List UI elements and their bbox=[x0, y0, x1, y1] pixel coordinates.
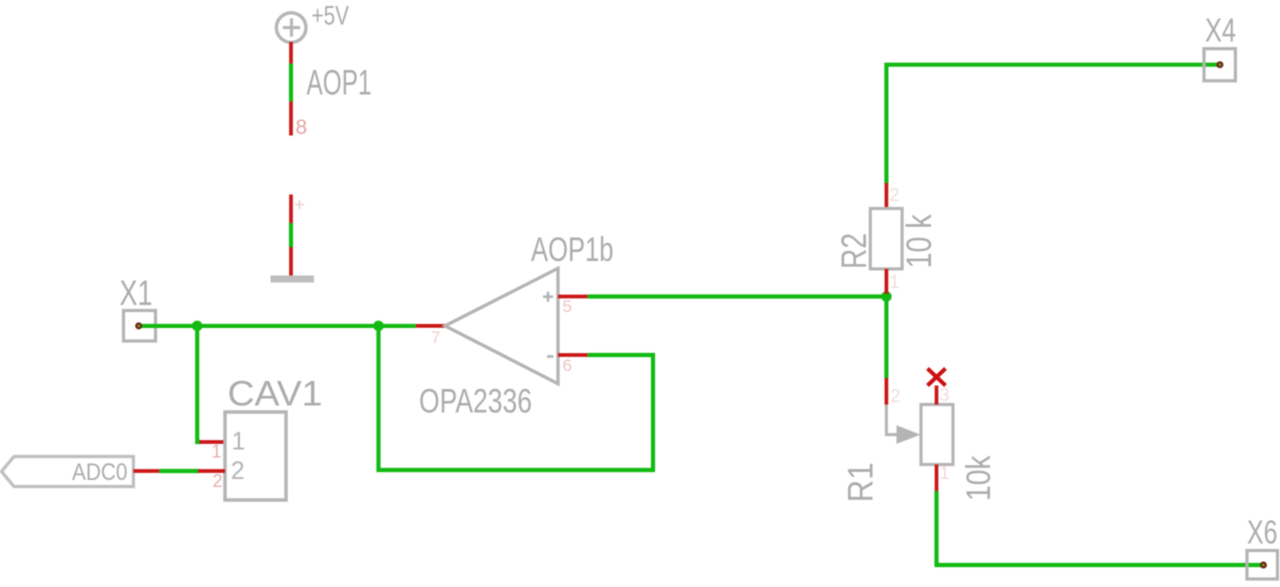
junction B bbox=[373, 321, 384, 332]
svg-text:7: 7 bbox=[431, 328, 440, 347]
wire op-amp + input net bbox=[588, 294, 887, 298]
svg-text:3: 3 bbox=[940, 385, 950, 405]
wire junction to CAV1 pin 1 bbox=[197, 326, 201, 442]
op-amp AOP1b body bbox=[445, 268, 558, 383]
svg-text:ADC0: ADC0 bbox=[72, 459, 128, 486]
pin name + bbox=[295, 200, 304, 210]
trimmer R1 body bbox=[921, 405, 953, 465]
svg-text:1: 1 bbox=[890, 272, 900, 292]
svg-text:X4: X4 bbox=[1205, 11, 1236, 48]
svg-text:10k: 10k bbox=[960, 455, 998, 501]
svg-text:+5V: +5V bbox=[312, 0, 350, 30]
net flag ADC0 bbox=[2, 457, 134, 487]
svg-text:1: 1 bbox=[232, 428, 246, 456]
pad X4 bbox=[1216, 61, 1223, 68]
connector X6 bbox=[1247, 551, 1278, 580]
trimmer R1 pin 1 stub bbox=[935, 465, 939, 492]
svg-text:2: 2 bbox=[231, 457, 245, 485]
svg-text:R1: R1 bbox=[842, 462, 881, 502]
svg-text:8: 8 bbox=[296, 116, 308, 139]
pad X6 bbox=[1260, 562, 1267, 569]
junction C bbox=[881, 291, 892, 302]
trimmer R1 pin 2 stub bbox=[885, 378, 889, 405]
svg-text:6: 6 bbox=[563, 356, 572, 375]
op-amp pin 5 stub bbox=[558, 295, 588, 299]
svg-text:2: 2 bbox=[891, 386, 901, 406]
svg-text:CAV1: CAV1 bbox=[228, 375, 323, 414]
svg-text:2: 2 bbox=[890, 185, 900, 205]
ground symbol bbox=[271, 276, 315, 283]
op-amp - input marker bbox=[547, 355, 554, 358]
resistor R2 pin 1 stub bbox=[885, 269, 889, 294]
svg-text:10 k: 10 k bbox=[900, 214, 939, 268]
unconnected pin marker X bbox=[928, 369, 946, 386]
supply symbol +5V bbox=[276, 13, 306, 43]
svg-text:1: 1 bbox=[212, 442, 222, 462]
junction A bbox=[192, 321, 203, 332]
op-amp AOP1 power pin V+ stub bbox=[289, 195, 293, 224]
CAV1 pin 1 stub bbox=[200, 440, 226, 444]
op-amp AOP1 power pin 8 stub bbox=[289, 102, 293, 136]
svg-text:1: 1 bbox=[940, 463, 950, 483]
wire N$1 X1 to op-amp bbox=[139, 324, 416, 328]
connector CAV1 body bbox=[225, 412, 286, 500]
trimmer R1 wiper bbox=[886, 405, 920, 444]
wire +5V net bbox=[289, 64, 293, 102]
svg-text:R2: R2 bbox=[835, 233, 874, 269]
svg-text:X1: X1 bbox=[120, 274, 153, 313]
svg-text:X6: X6 bbox=[1247, 513, 1278, 550]
svg-text:5: 5 bbox=[563, 297, 572, 316]
pad X1 bbox=[135, 322, 142, 329]
resistor R2 body bbox=[870, 209, 902, 269]
CAV1 pin 2 stub bbox=[198, 469, 225, 473]
trimmer R1 pin 3 stub bbox=[935, 386, 939, 405]
wire junction to R1 bbox=[884, 297, 888, 379]
svg-text:AOP1b: AOP1b bbox=[531, 231, 614, 269]
svg-text:2: 2 bbox=[213, 471, 223, 491]
svg-text:OPA2336: OPA2336 bbox=[419, 383, 532, 421]
wire GND net bbox=[289, 223, 293, 247]
supply pin stub bbox=[289, 42, 293, 64]
op-amp + input marker bbox=[543, 292, 553, 302]
resistor R2 pin 2 stub bbox=[885, 183, 889, 209]
connector X4 bbox=[1204, 49, 1235, 81]
wire to X4 bbox=[886, 65, 1220, 184]
op-amp output pin 7 stub bbox=[416, 324, 445, 328]
connector X1 bbox=[124, 311, 156, 342]
wire ADC0 net bbox=[159, 469, 199, 473]
wire feedback net bbox=[379, 326, 654, 470]
svg-text:AOP1: AOP1 bbox=[307, 63, 372, 102]
ground pin stub bbox=[289, 247, 293, 276]
wire R1 to X6 bbox=[937, 491, 1264, 565]
op-amp pin 6 stub bbox=[558, 353, 588, 357]
ADC0 pin stub bbox=[133, 469, 159, 473]
